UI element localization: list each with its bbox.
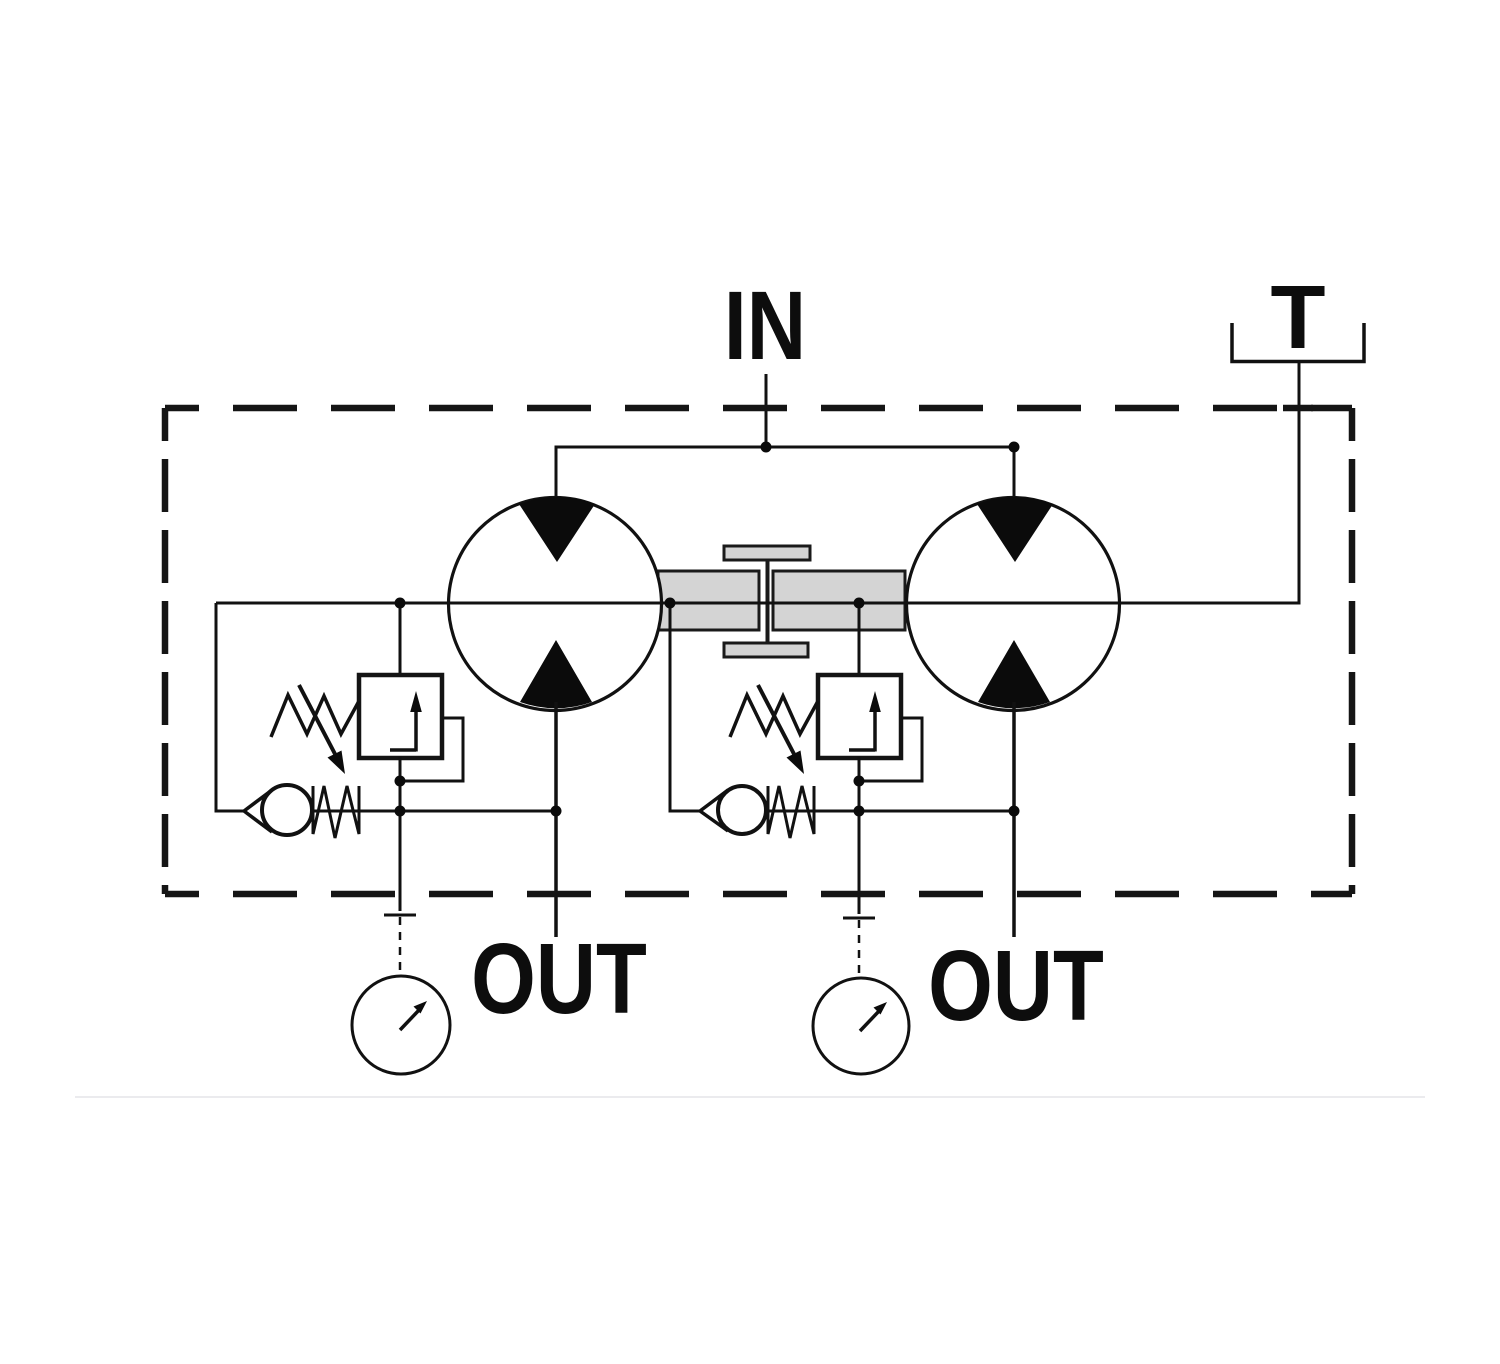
svg-text:OUT: OUT <box>471 923 647 1035</box>
svg-text:IN: IN <box>724 271 806 380</box>
svg-text:T: T <box>1271 268 1326 368</box>
svg-text:OUT: OUT <box>928 930 1104 1042</box>
